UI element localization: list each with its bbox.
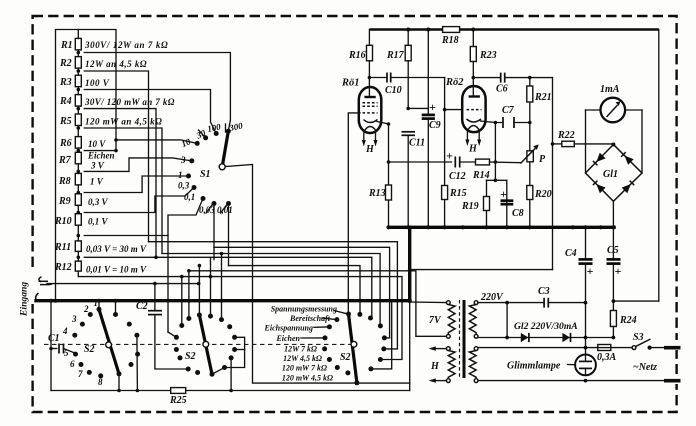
capacitor C5 electrolytic [607,227,622,310]
svg-text:R24: R24 [619,315,637,326]
resistor R7 [75,152,81,164]
capacitor C1 [48,333,74,354]
svg-text:Gl2 220V/30mA: Gl2 220V/30mA [514,321,578,332]
wire tap R5 down to bundle L3 [84,128,162,254]
svg-text:1: 1 [94,298,99,308]
resistor R9 [75,194,81,206]
resistor R21 [527,86,533,102]
svg-text:12W 7 kΩ: 12W 7 kΩ [284,345,317,354]
svg-text:Gl1: Gl1 [603,169,618,180]
mains terminal 1 [664,346,681,350]
S2a wiper arm [99,309,119,374]
wire S2a right contacts down to R25 line [136,335,139,390]
svg-text:R4: R4 [59,96,72,107]
S2a contact 3 [80,322,85,327]
svg-text:R17: R17 [386,50,405,61]
capacitor C10 [368,73,445,97]
resistor R24 [610,311,616,327]
svg-text:Glimmlampe: Glimmlampe [507,361,561,372]
rotary switch S2c [322,312,387,386]
S2b right contact bracket [225,337,245,367]
wire tap R9 to S1 contact 0,3 [84,188,194,213]
svg-text:R13: R13 [368,188,386,199]
junction dots on bundle [220,252,224,256]
bundle line L5 [229,266,361,315]
svg-text:C1: C1 [48,333,60,344]
svg-text:S2: S2 [84,344,95,355]
svg-text:C8: C8 [512,208,524,219]
Roe1 grids [363,103,378,113]
wire divider top down to bus [56,30,78,301]
Gl2 diode 2 [562,333,570,342]
S1 contact 0,3 [192,185,197,190]
resistor R15 [442,186,448,200]
capacitor C8 electrolytic [506,180,508,227]
svg-text:Rö2: Rö2 [445,77,464,88]
capacitor C6 [496,73,552,95]
S2c left contacts [346,312,351,317]
Roe2 anode [469,95,480,97]
wire tap R8 to S1 contact 1 [84,176,188,193]
capacitor C12 electrolytic [446,149,466,183]
switch S3 [632,346,636,350]
bottom mains line [478,380,666,382]
wire Roe1 grid to S2c [348,113,360,314]
H winding [448,351,455,379]
tube Roe2 [445,77,486,155]
capacitor C4 electrolytic [565,225,594,354]
divider chain wire [77,30,79,277]
resistor R4 [75,95,81,107]
resistor R8 [75,173,81,185]
S1 contact 0,1 [201,196,206,201]
svg-text:C12: C12 [449,171,466,182]
S2c pivot [351,341,357,347]
svg-text:Eingang: Eingang [19,282,30,317]
wire tap R10 to S1 contact 0,1 [84,199,203,236]
svg-text:R5: R5 [59,116,72,127]
S1 contact 3 [189,158,194,163]
svg-text:0,3 V: 0,3 V [88,197,109,207]
svg-text:C7: C7 [502,105,515,116]
wire divider top extension [78,30,116,151]
tube stage ground bus [390,226,614,229]
bundle line L2 [214,247,390,338]
svg-text:R1: R1 [60,40,73,51]
S2a right contacts [113,312,118,317]
wire Roe2 cathode to C7 [481,121,503,123]
svg-text:Eichen: Eichen [275,334,300,343]
svg-text:1: 1 [178,170,183,180]
svg-text:R21: R21 [534,92,552,103]
svg-text:R22: R22 [557,130,575,141]
Glimmlampe [507,355,596,376]
svg-text:H: H [430,361,440,372]
svg-text:0,01 V = 10 m V: 0,01 V = 10 m V [86,265,147,275]
resistor R19 [486,180,488,227]
C12 R14 feedback line [389,161,452,163]
svg-text:~Netz: ~Netz [633,362,657,373]
svg-text:C2: C2 [136,301,148,312]
svg-text:+: + [429,100,436,114]
svg-text:3: 3 [71,314,77,324]
capacitor C7 [502,105,532,128]
S2b left contacts [186,316,191,321]
svg-text:R23: R23 [479,50,497,61]
svg-text:R12: R12 [54,262,72,273]
capacitor C9 electrolytic [408,28,440,228]
svg-text:C11: C11 [409,138,425,149]
svg-text:R14: R14 [472,170,490,181]
svg-text:100 V: 100 V [85,78,110,88]
resistor R3 [75,75,81,87]
svg-text:C4: C4 [565,248,577,259]
S2b right contacts [208,314,213,319]
svg-text:R3: R3 [59,77,72,88]
fuse 0,3A [598,345,611,351]
S2a contact 7 [87,370,92,375]
svg-text:12W an 4,5 kΩ: 12W an 4,5 kΩ [85,59,147,69]
wires S2b contacts up through bus to bundle [181,277,183,326]
S2a pivot [106,342,112,348]
svg-text:+: + [587,264,594,278]
svg-text:0,03: 0,03 [199,205,215,215]
C5 junction to right drop [613,300,658,302]
wire tap R11 joins bundle L4 [84,256,214,258]
svg-text:Eichen: Eichen [87,151,115,161]
heater arrows [434,348,446,350]
svg-text:0,1: 0,1 [184,192,195,202]
svg-text:220V: 220V [480,292,504,303]
svg-text:R25: R25 [169,395,187,406]
R21 chain vertical [529,78,531,228]
S1 contact 1 [186,174,191,179]
Roe1 cathode [364,120,378,123]
S2a contact 5 [73,352,78,357]
thin continuation of vertical below bus [409,301,411,391]
C3 line [478,302,544,304]
svg-text:0,1 V: 0,1 V [88,217,109,227]
core [459,300,461,378]
svg-text:S1: S1 [200,169,211,180]
wire Roe1 cathode node [377,122,389,228]
S1 contact 100 [214,131,219,136]
Gl1 diode lower-right [622,184,631,193]
svg-text:R16: R16 [348,50,366,61]
svg-text:R6: R6 [59,138,72,149]
resistor R2 [75,57,81,69]
wire 7V top to bus [410,301,447,304]
Gl1 diode upper-left [596,153,605,162]
capacitor C11 [402,107,426,228]
rotary switch S1 [178,120,244,215]
Roe2 grid [467,109,482,111]
svg-text:10 V: 10 V [88,139,106,149]
S2a contact 2 [88,312,93,317]
meter branch verticals [585,110,587,173]
resistor R17 [405,45,411,61]
S2c right contacts [357,312,362,317]
svg-text:+: + [446,149,453,163]
resistor R16 [367,45,373,61]
R19 C8 tee [494,123,496,181]
svg-text:S2: S2 [185,351,196,362]
svg-text:R8: R8 [58,176,71,187]
svg-text:6: 6 [70,359,75,369]
resistor R22 [553,143,562,145]
svg-text:R2: R2 [59,58,72,69]
Roe2 heater leads H [467,132,479,141]
fuse line from secondary [478,347,598,349]
svg-text:2: 2 [83,304,89,314]
tube Roe1 [341,78,381,156]
vertical C3 line to diode line [506,303,508,338]
wire tap R3 to S1 contact 100 [84,90,216,134]
svg-text:8: 8 [98,377,103,387]
svg-text:7V: 7V [429,315,442,326]
S2a contact 8 [98,373,103,378]
Roe1 heater [364,127,377,132]
svg-text:0,3: 0,3 [178,181,190,191]
box around S2c [253,302,410,383]
wire tap R1 to S1 contact 300 [84,53,230,132]
svg-text:Spannungsmessung: Spannungsmessung [271,305,337,314]
bundle line L1 [149,242,398,349]
S2a contact 6 [79,362,84,367]
Roe2 cathode [467,119,482,122]
svg-text:C3: C3 [538,286,550,297]
220V winding [469,305,476,335]
svg-text:120 mW an 4,5 kΩ: 120 mW an 4,5 kΩ [85,117,162,127]
input terminal Eingang [36,277,201,301]
resistor R18 [443,27,460,33]
svg-text:0,03 V = 30 m V: 0,03 V = 30 m V [86,244,147,254]
top supply bus [369,28,658,31]
svg-text:R18: R18 [441,35,459,46]
svg-text:3 V: 3 V [90,161,105,171]
wire tap R4 down to bundle L4 [84,109,156,258]
S1 pivot [219,164,225,170]
svg-text:C6: C6 [496,84,508,95]
rectifier Gl2 line [478,337,613,339]
svg-text:300V/ 12W an 7 kΩ: 300V/ 12W an 7 kΩ [84,40,168,50]
S1 contact 10 [195,141,200,146]
resistor R11 [75,241,81,252]
wire S1 contact 0,03 down to bundle L4 [213,206,215,260]
wire tap R2 down to bundle L1 [84,71,148,242]
meter 1mA [586,84,643,122]
svg-text:7: 7 [78,369,83,379]
svg-text:12W 4,5 kΩ: 12W 4,5 kΩ [283,354,322,363]
wire S2a right contact to bus [115,301,117,315]
wire S2b contact down to R25 line [230,358,232,391]
svg-text:30V/ 120 mW an 7 kΩ: 30V/ 120 mW an 7 kΩ [84,97,175,107]
svg-text:4: 4 [62,326,68,336]
resistor R5 [75,114,81,126]
S1 contact 0,03 [212,201,217,206]
Gl1 diode upper-right [625,156,634,165]
bundle line L6 to 7V winding [189,271,447,337]
7V winding [448,305,455,335]
svg-text:3: 3 [180,155,186,165]
svg-text:S3: S3 [633,332,644,343]
svg-text:C5: C5 [607,245,619,256]
svg-text:5: 5 [64,348,69,358]
rotary switch S2a [62,298,140,387]
S2a contact 4 [72,333,77,338]
wire S2c lower contact to R22 line [371,301,392,369]
svg-text:H: H [468,144,478,155]
bundle line L3 [162,254,380,326]
resistor R13 [386,185,392,200]
Gl2 diode 1 [521,333,529,342]
secondary low winding [469,351,476,379]
main ground bus (thick) [36,299,410,302]
capacitor C3 [543,298,545,308]
svg-text:Eichspannung: Eichspannung [264,324,313,333]
S2c wiper arm [349,314,357,383]
right supply drop [658,30,660,302]
S2a contact 1 [97,307,102,312]
Roe1 heater leads H [364,133,376,141]
svg-text:H: H [365,144,375,155]
Gl1 diode lower-left [596,184,605,193]
wire tap R6 to S1 contact 10 [84,150,116,152]
svg-text:C10: C10 [385,85,402,96]
svg-text:1mA: 1mA [600,84,620,95]
svg-text:+: + [500,187,507,201]
wire S1 contact 0,01 down to bundle L5 [228,206,230,266]
svg-text:R15: R15 [449,188,467,199]
potentiometer P [520,144,546,165]
anode wire to C6 [472,76,476,80]
Roe1 anode [364,96,375,98]
S2b pivot [203,341,209,347]
resistor R12 [75,261,81,271]
svg-text:0,3A: 0,3A [597,352,617,363]
resistor R10 [75,214,81,226]
resistor R6 [75,137,81,149]
capacitor C2 [136,284,188,369]
S2b wiper arm [199,315,212,374]
wire S2a wiper bottom to R25 line [118,374,120,391]
resistor R14 [476,159,490,165]
svg-text:120 mW 7 kΩ: 120 mW 7 kΩ [282,364,327,373]
line bus to R22 node [410,269,553,271]
wire C10 node to Roe2 grid with R15 [444,78,446,228]
svg-text:R7: R7 [58,155,72,166]
svg-text:R9: R9 [58,196,71,207]
wire S1 pivot output down [225,165,252,303]
svg-text:1 V: 1 V [90,177,104,187]
S1 contact 300 [226,129,231,134]
thick vertical link [408,227,411,301]
bridge rectifier Gl1 [586,143,643,202]
resistor R25 and bottom line [51,390,171,392]
transformer Tr [429,300,478,383]
resistor R20 [527,186,533,200]
resistor R1 [75,38,81,50]
bus junction dots [49,299,53,303]
svg-text:S2: S2 [340,352,351,363]
wire tap R7 to S1 contact 3 [84,158,192,172]
svg-text:C9: C9 [429,120,441,131]
svg-text:R11: R11 [54,242,71,253]
bundle line L4 [214,257,372,318]
bundle line L7 [79,277,402,360]
svg-text:P: P [539,154,546,165]
resistor R23 [470,47,476,62]
wire S2a contact1 to bus [98,301,100,310]
svg-text:R20: R20 [534,189,552,200]
svg-text:R10: R10 [54,216,72,227]
svg-text:Rö1: Rö1 [341,78,360,89]
Roe2 heater [468,126,480,131]
bridge bottom to bus [612,201,614,227]
ganged switch coupling dashed line [44,343,352,345]
svg-text:R19: R19 [461,201,479,212]
left branch wire down to R25 line [50,301,52,391]
mains terminal 2 [664,379,681,383]
rotary switch S2b [174,313,237,377]
S1 contact 30 [203,135,208,140]
S1 contact 0,01 [226,201,231,206]
svg-text:+: + [615,264,622,278]
S1 wiper arm [222,131,228,167]
svg-text:120 mW 4,5 kΩ: 120 mW 4,5 kΩ [282,374,333,383]
